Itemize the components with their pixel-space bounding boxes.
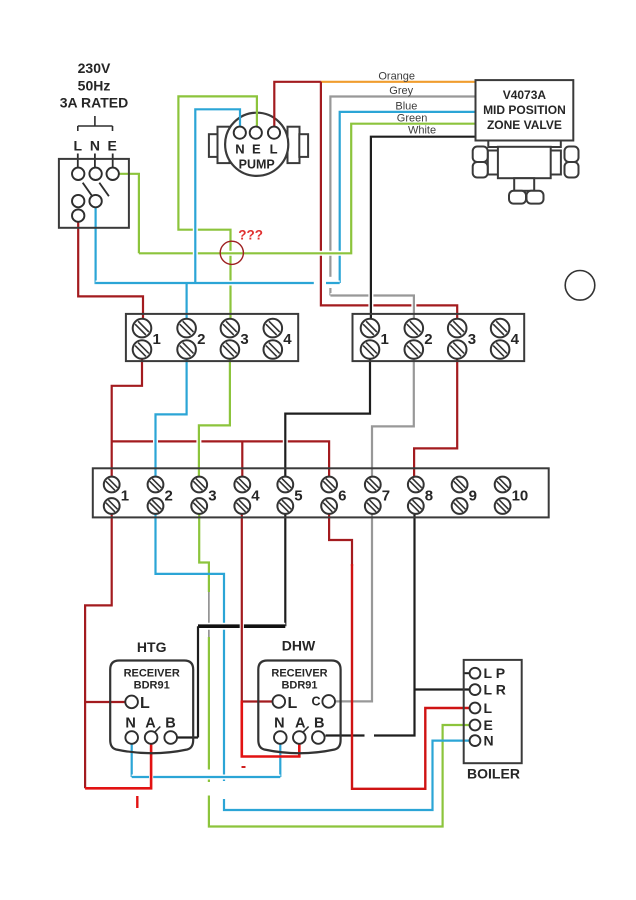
svg-text:Green: Green [397,113,428,125]
wire black strip C5 to HTG B link [284,508,286,626]
svg-text:B: B [165,716,175,732]
pump P1 terminal circles [234,127,280,139]
wire grey strip C7 to DHW C [336,508,373,701]
svg-text:L: L [484,700,493,716]
svg-text:50Hz: 50Hz [78,78,111,94]
isolator switch box SW1 [59,159,129,228]
wire colour labels [378,71,436,137]
strip C numbers [121,488,529,505]
svg-text:C: C [312,695,321,709]
svg-text:9: 9 [469,488,477,505]
wire red pump L feed [274,82,321,127]
svg-text:E: E [252,142,261,157]
HTG L terminal [125,696,138,709]
svg-text:3: 3 [240,331,248,348]
svg-text:2: 2 [165,488,173,505]
strip A terminal 4 screws [264,319,283,338]
wire blue main horizontal [94,207,96,284]
HTG receiver U2 box [110,661,193,754]
HTG N A B terminals [125,731,177,744]
wire blue drop to strip A terminal 2 [186,283,188,322]
svg-text:5: 5 [294,488,302,505]
pump P1 body side tabs [209,127,308,163]
svg-text:2: 2 [424,331,432,348]
wire red strip B3 to strip C8 [414,350,457,478]
wire blue HTG N to DHW N [132,744,281,777]
svg-text:3: 3 [208,488,216,505]
eraser gap on DHW B wire [365,734,375,738]
svg-text:N: N [90,138,100,154]
230V supply label [60,60,128,111]
wire grey down to strip B terminal 2 [330,296,414,320]
svg-text:L R: L R [484,682,506,698]
svg-text:8: 8 [425,488,433,505]
svg-text:L P: L P [484,665,506,681]
strip A terminal 2 screws [177,319,196,338]
DHW L terminal [273,695,286,708]
svg-text:BDR91: BDR91 [281,679,317,691]
svg-text:V4073A: V4073A [503,88,547,102]
strip B terminal 2 screws [405,319,424,338]
svg-text:230V: 230V [78,60,111,76]
boiler terminals [470,668,481,746]
svg-text:1: 1 [381,331,389,348]
svg-text:E: E [484,717,493,733]
svg-text:3A RATED: 3A RATED [60,95,128,111]
svg-text:E: E [108,138,117,154]
wire black strip C8 to boiler LR and DHW B [326,508,471,736]
pump P1 body circle [225,113,288,176]
svg-text:Blue: Blue [395,101,417,113]
svg-text:7: 7 [382,488,390,505]
boiler terminal labels [484,665,506,748]
svg-text:BDR91: BDR91 [134,679,170,691]
svg-text:N: N [235,142,244,157]
strip B terminal 1 screws [361,319,380,338]
wire black boiler LP stub [464,672,470,674]
svg-text:4: 4 [511,331,520,348]
svg-text:10: 10 [512,488,529,505]
eraser gap on green wire [206,770,212,796]
svg-text:1: 1 [153,331,161,348]
svg-text:Orange: Orange [378,71,415,83]
L N E letters [74,138,117,154]
strip B terminal 4 screws [491,319,510,338]
query circle [220,241,243,264]
wire black strip B1 to strip C5 [283,414,288,465]
svg-text:4: 4 [283,331,292,348]
strip B terminal 3 screws [448,319,467,338]
strip C terminal 6 screws [321,477,337,493]
svg-text:N: N [484,733,494,749]
DHW A switch tick [303,727,308,732]
svg-text:L: L [74,138,83,154]
strip C terminal 9 screws [452,477,468,493]
strip C terminal 5 screws [277,477,293,493]
svg-text:3: 3 [468,331,476,348]
wire grey valve to corner [330,97,475,296]
HTG N A B labels [125,716,175,732]
supply bracket [78,116,113,131]
DHW N A B terminals [274,731,325,744]
svg-text:RECEIVER: RECEIVER [124,667,180,679]
strip C terminal 2 screws [148,477,164,493]
svg-text:PUMP: PUMP [239,158,275,172]
strip A terminal 3 screws [221,319,240,338]
strip C terminal 7 screws [365,477,381,493]
strip A terminal 1 screws [133,319,152,338]
svg-text:6: 6 [338,488,346,505]
wire red strip C6 to boiler L [329,508,352,566]
grey remnant over green wire [207,592,211,637]
strip B numbers [381,331,520,348]
isolator switch contacts [83,183,109,197]
svg-text:N: N [125,716,135,732]
HTG A switch tick [155,727,160,732]
wire white/black valve to strip B terminal 1 [368,139,373,319]
DHW N A B labels [274,716,324,732]
wire blue valve riser [340,112,476,283]
stray red dash near DHW [242,766,246,768]
wire blue strip C2 to boiler N [156,508,471,810]
svg-text:DHW: DHW [282,638,316,654]
svg-text:???: ??? [238,228,263,243]
svg-text:1: 1 [121,488,129,505]
lone circle [565,271,595,301]
wire red strip C4 to DHW L and A [240,621,244,632]
strip C terminal 10 screws [495,477,511,493]
wire green strip C3 to boiler E [199,508,470,827]
strip A numbers [153,331,293,348]
zone valve body symbol [473,141,579,204]
svg-text:L: L [270,142,278,157]
wire green horizontal to valve [141,124,351,254]
zone valve label box U1 [476,80,574,140]
svg-text:Grey: Grey [389,85,413,97]
svg-text:ZONE VALVE: ZONE VALVE [487,118,562,132]
svg-text:BOILER: BOILER [467,766,520,782]
wire green pump E loop to strip A terminal 3 [178,96,257,322]
svg-text:White: White [408,125,436,137]
svg-text:HTG: HTG [137,639,167,655]
stray red mark [136,796,138,808]
isolator terminals [72,168,119,222]
strip C terminal 8 screws [408,477,424,493]
wire green strip A3 to strip C3 [196,425,201,465]
wire blue pump N riser [193,112,198,280]
wire grey strip B2 to strip C7 [370,426,375,465]
strip C terminal 3 screws [191,477,207,493]
boiler box U4 [464,660,522,763]
eraser gap on blue at red crossing [314,281,326,285]
svg-text:A: A [295,716,306,732]
wire red long distribution horizontal [112,350,329,478]
isolator terminal stubs [78,154,113,169]
svg-text:B: B [314,716,324,732]
svg-text:2: 2 [197,331,205,348]
terminal strip C [93,468,549,517]
svg-text:L: L [140,695,150,712]
svg-text:N: N [274,716,284,732]
svg-text:4: 4 [251,488,260,505]
svg-text:A: A [145,716,156,732]
wire red isolator to strip A terminal 1 [78,220,143,322]
strip C terminal 4 screws [234,477,250,493]
wire red strip C1 to HTG L and A [85,508,126,788]
wire green from isolator E down [118,174,139,254]
terminal strip A [126,314,298,361]
wire red pump L to strip B terminal 3 [321,84,457,319]
DHW receiver U3 box [258,661,340,754]
terminal strip B [353,314,525,361]
svg-text:L: L [288,695,298,712]
eraser gap on blue wire [221,781,227,799]
wire orange valve feed [321,81,476,83]
strip C terminal 1 screws [104,477,120,493]
svg-text:MID POSITION: MID POSITION [483,103,566,117]
svg-text:RECEIVER: RECEIVER [271,667,327,679]
wire blue strip A2 to strip C2 [153,414,158,465]
